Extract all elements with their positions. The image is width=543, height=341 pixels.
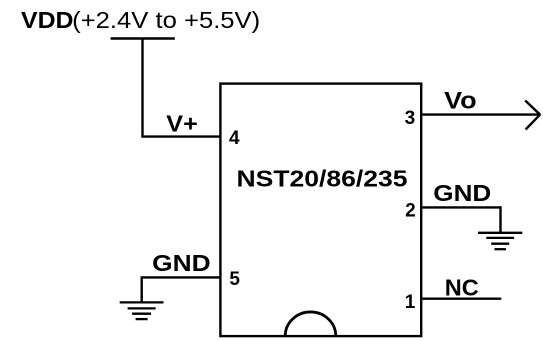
svg-text:1: 1 — [405, 292, 416, 313]
svg-text:2: 2 — [405, 200, 416, 221]
svg-text:3: 3 — [405, 108, 416, 129]
svg-text:NC: NC — [445, 274, 479, 300]
svg-text:(+2.4V to +5.5V): (+2.4V to +5.5V) — [72, 7, 260, 33]
svg-text:Vo: Vo — [444, 88, 477, 115]
svg-text:NST20/86/235: NST20/86/235 — [237, 165, 408, 191]
svg-text:5: 5 — [229, 269, 240, 290]
svg-text:4: 4 — [229, 128, 240, 149]
svg-text:GND: GND — [152, 250, 211, 276]
svg-text:GND: GND — [433, 180, 491, 206]
svg-text:V+: V+ — [166, 110, 198, 136]
svg-text:VDD: VDD — [21, 7, 74, 33]
